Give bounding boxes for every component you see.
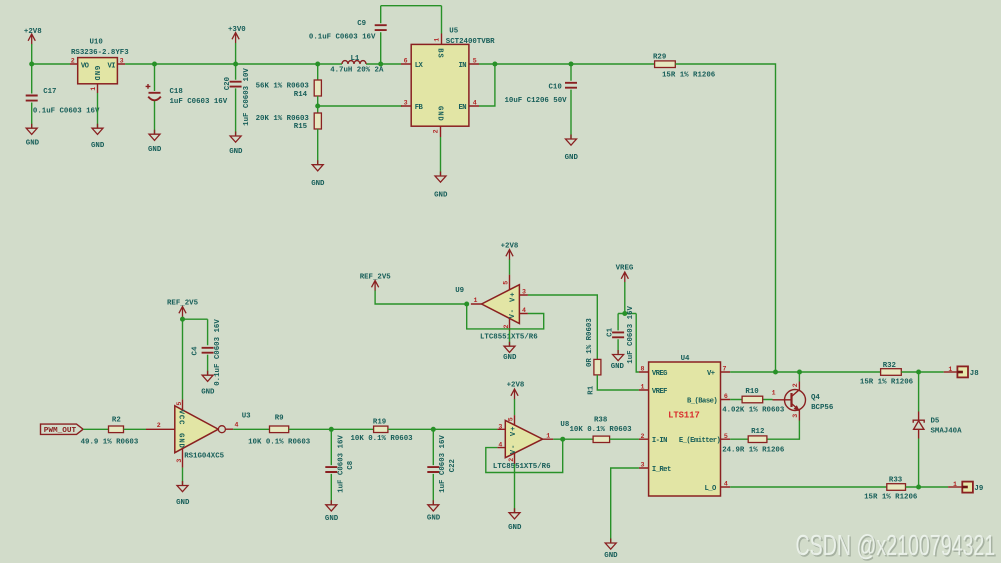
resistor R33 <box>864 477 918 502</box>
svg-text:EN: EN <box>459 104 467 112</box>
wire <box>906 486 949 488</box>
op-amp U8 <box>493 415 570 471</box>
wire <box>509 260 511 275</box>
junction <box>233 62 238 67</box>
svg-text:R19: R19 <box>373 419 386 427</box>
wire <box>618 282 639 372</box>
label REF_2V5 U3 <box>167 299 199 317</box>
wire <box>125 63 401 65</box>
wire <box>901 371 943 373</box>
resistor R2 <box>81 416 139 446</box>
svg-text:C8: C8 <box>347 460 355 469</box>
wire <box>388 428 497 430</box>
svg-text:GND: GND <box>611 363 625 371</box>
svg-text:D5: D5 <box>931 418 940 426</box>
svg-text:R14: R14 <box>294 91 308 99</box>
wire <box>730 438 748 440</box>
wire <box>97 93 99 128</box>
svg-text:56K 1% R0603: 56K 1% R0603 <box>256 83 310 91</box>
svg-text:6: 6 <box>404 58 408 65</box>
svg-text:U5: U5 <box>449 28 458 36</box>
svg-text:R12: R12 <box>751 428 764 436</box>
svg-text:7: 7 <box>723 366 727 373</box>
svg-text:1: 1 <box>90 87 97 91</box>
ground <box>434 172 448 200</box>
svg-text:3: 3 <box>498 423 502 430</box>
svg-text:3: 3 <box>641 462 645 469</box>
svg-text:REF_2V5: REF_2V5 <box>167 299 199 307</box>
svg-text:3: 3 <box>522 289 526 296</box>
svg-text:BCP56: BCP56 <box>811 404 834 412</box>
svg-text:V-: V- <box>509 308 517 318</box>
svg-text:V+: V+ <box>707 370 715 378</box>
svg-text:SCT2400TVBR: SCT2400TVBR <box>446 38 495 46</box>
svg-text:+2V8: +2V8 <box>501 242 519 250</box>
ground <box>427 500 441 522</box>
svg-text:10K 0.1% R0603: 10K 0.1% R0603 <box>570 426 633 434</box>
svg-text:0.1uF C0603 16V: 0.1uF C0603 16V <box>33 108 100 116</box>
wire <box>317 129 319 164</box>
svg-text:+3V0: +3V0 <box>228 26 246 34</box>
svg-text:1uF C0603 16V: 1uF C0603 16V <box>170 98 228 106</box>
svg-text:4: 4 <box>522 307 526 314</box>
wire base <box>730 399 772 401</box>
wire <box>124 428 147 430</box>
wire collector <box>798 372 800 382</box>
resistor R19 <box>351 419 414 444</box>
svg-text:SMAJ40A: SMAJ40A <box>931 428 963 436</box>
svg-text:1: 1 <box>948 366 952 373</box>
wire <box>440 137 442 175</box>
svg-text:C4: C4 <box>191 346 199 355</box>
junction <box>492 62 497 67</box>
svg-text:10K 0.1% R0603: 10K 0.1% R0603 <box>351 435 414 443</box>
resistor R9 <box>248 415 311 447</box>
svg-text:GND: GND <box>565 154 579 162</box>
wire V+ rail <box>730 371 880 373</box>
svg-text:+2V8: +2V8 <box>507 382 525 390</box>
svg-text:U9: U9 <box>455 287 464 295</box>
IC U5 <box>401 28 495 137</box>
svg-text:GND: GND <box>177 433 185 449</box>
ground <box>201 371 215 397</box>
junction <box>29 62 34 67</box>
svg-text:0R 1% R0603: 0R 1% R0603 <box>586 318 594 367</box>
regulator U10 <box>70 38 129 93</box>
svg-text:5: 5 <box>508 417 515 421</box>
op-amp U9 <box>455 275 538 342</box>
svg-text:4: 4 <box>724 481 728 488</box>
svg-text:GND: GND <box>436 106 444 122</box>
power +2V8 <box>501 242 519 260</box>
svg-text:4: 4 <box>498 442 502 449</box>
svg-text:20K 1% R0603: 20K 1% R0603 <box>256 115 310 123</box>
svg-text:GND: GND <box>176 499 190 507</box>
wire <box>610 438 639 440</box>
svg-text:GND: GND <box>427 514 441 522</box>
capacitor C4 <box>191 319 221 386</box>
ground <box>91 124 105 150</box>
svg-text:RS3236-2.8YF3: RS3236-2.8YF3 <box>71 49 129 57</box>
svg-text:2: 2 <box>157 422 161 429</box>
svg-text:2: 2 <box>792 383 799 387</box>
svg-text:C10: C10 <box>549 83 563 91</box>
svg-text:Q4: Q4 <box>811 394 820 402</box>
resistor R38 <box>570 417 633 443</box>
junction <box>152 62 157 67</box>
wire <box>233 428 269 430</box>
connector J9 <box>948 481 983 493</box>
capacitor C20 <box>224 64 251 135</box>
svg-text:1: 1 <box>433 38 440 42</box>
svg-text:C17: C17 <box>43 88 56 96</box>
ground <box>229 132 243 156</box>
ground <box>311 160 325 188</box>
svg-text:V-: V- <box>510 444 518 454</box>
svg-text:J9: J9 <box>974 485 983 493</box>
resistor R14 <box>256 64 322 99</box>
svg-text:5: 5 <box>473 58 477 65</box>
wire U9 out <box>528 295 597 359</box>
svg-text:CSDN @x2100794321: CSDN @x2100794321 <box>796 530 996 562</box>
svg-text:1uF C0603 16V: 1uF C0603 16V <box>627 306 635 364</box>
wire <box>509 331 511 346</box>
svg-text:LX: LX <box>415 62 424 70</box>
junction <box>797 370 802 375</box>
inductor L1 <box>330 55 384 74</box>
svg-text:GND: GND <box>148 146 162 154</box>
svg-text:L1: L1 <box>351 55 360 63</box>
wire I_Ret <box>611 468 639 542</box>
wire <box>375 291 467 305</box>
wire IN rail <box>479 63 655 65</box>
svg-text:GND: GND <box>503 354 517 362</box>
label REF_2V5 <box>360 274 392 291</box>
junction <box>916 485 921 490</box>
connector J8 <box>944 366 980 378</box>
svg-text:B_(Base): B_(Base) <box>687 397 717 405</box>
svg-text:2: 2 <box>71 58 75 65</box>
svg-text:GND: GND <box>325 515 339 523</box>
capacitor C10 <box>505 64 578 138</box>
svg-text:1: 1 <box>474 297 478 304</box>
power +2V8 U8 <box>507 382 525 400</box>
svg-text:15R 1% R1206: 15R 1% R1206 <box>860 379 914 387</box>
svg-text:5: 5 <box>176 402 183 406</box>
svg-text:GND: GND <box>92 66 100 82</box>
svg-text:GND: GND <box>201 389 215 397</box>
wire <box>32 44 70 64</box>
svg-text:1: 1 <box>546 433 550 440</box>
svg-text:8: 8 <box>641 366 645 373</box>
wire <box>289 428 374 430</box>
wire <box>553 438 593 440</box>
wire <box>182 468 184 485</box>
wire <box>83 428 108 430</box>
svg-text:24.9R 1% R1206: 24.9R 1% R1206 <box>722 447 785 455</box>
diode D5 <box>913 372 962 487</box>
svg-text:RS1G04XC5: RS1G04XC5 <box>184 453 224 461</box>
svg-text:GND: GND <box>434 191 448 199</box>
svg-text:C9: C9 <box>357 20 366 28</box>
svg-text:1uF C0603 16V: 1uF C0603 16V <box>439 435 447 493</box>
svg-text:3: 3 <box>792 414 799 418</box>
capacitor C1 <box>606 306 634 364</box>
wire <box>183 317 208 400</box>
svg-text:2: 2 <box>432 129 439 133</box>
transistor Q4 <box>772 382 834 421</box>
svg-text:V+: V+ <box>510 426 518 436</box>
junction <box>916 370 921 375</box>
svg-text:1: 1 <box>953 481 957 488</box>
junction <box>329 427 334 432</box>
hierarchical label PWM_OUT <box>41 424 84 435</box>
wire feedback U8 <box>486 439 563 472</box>
ground <box>325 500 339 523</box>
wire <box>675 64 775 372</box>
svg-text:PWM_OUT: PWM_OUT <box>44 427 77 435</box>
wire EN <box>479 64 495 106</box>
svg-text:VREG: VREG <box>616 265 634 273</box>
svg-text:3: 3 <box>120 58 124 65</box>
svg-text:3: 3 <box>404 100 408 107</box>
svg-text:VO: VO <box>81 62 90 70</box>
svg-text:I-IN: I-IN <box>652 437 667 445</box>
wire emitter <box>767 421 800 440</box>
svg-text:5: 5 <box>724 433 728 440</box>
svg-text:0.1uF C0603 16V: 0.1uF C0603 16V <box>214 319 222 386</box>
capacitor C18 polarized <box>146 64 228 134</box>
svg-text:VREF: VREF <box>652 388 667 396</box>
ground <box>508 508 522 532</box>
svg-text:R32: R32 <box>883 362 896 370</box>
power +2V8 <box>24 28 42 45</box>
svg-text:I_Ret: I_Ret <box>652 466 671 474</box>
svg-text:R1: R1 <box>588 385 596 394</box>
svg-text:C18: C18 <box>170 88 184 96</box>
svg-text:C22: C22 <box>449 459 457 472</box>
wire L_O rail <box>730 486 887 488</box>
svg-text:GND: GND <box>26 140 40 148</box>
svg-text:2: 2 <box>641 433 645 440</box>
inverter U3 <box>146 399 251 467</box>
svg-text:10K 0.1% R0603: 10K 0.1% R0603 <box>248 438 311 446</box>
capacitor C17 <box>26 64 100 128</box>
svg-text:4: 4 <box>235 422 239 429</box>
svg-text:VREG: VREG <box>652 370 667 378</box>
junction <box>560 437 565 442</box>
svg-text:1: 1 <box>772 389 776 396</box>
resistor R15 <box>256 113 322 131</box>
wire <box>514 399 516 415</box>
ground <box>148 130 162 154</box>
svg-text:GND: GND <box>508 524 522 532</box>
svg-text:VI: VI <box>108 62 116 70</box>
svg-text:15R 1% R1206: 15R 1% R1206 <box>864 494 918 502</box>
junction <box>464 302 469 307</box>
svg-text:U3: U3 <box>242 412 251 420</box>
junction <box>315 62 320 67</box>
svg-text:REF_2V5: REF_2V5 <box>360 274 392 282</box>
svg-text:LTC8551XT5/R6: LTC8551XT5/R6 <box>493 463 551 471</box>
svg-text:R33: R33 <box>889 477 903 485</box>
capacitor C22 <box>427 429 457 504</box>
svg-text:R10: R10 <box>745 388 759 396</box>
svg-text:1uF C0603 10V: 1uF C0603 10V <box>243 68 251 126</box>
junction <box>315 104 320 109</box>
resistor R10 <box>722 388 785 414</box>
ground <box>565 135 579 163</box>
svg-text:R15: R15 <box>294 123 308 131</box>
capacitor C9 <box>309 6 442 64</box>
svg-text:R29: R29 <box>653 54 666 62</box>
svg-text:+2V8: +2V8 <box>24 28 42 36</box>
ground <box>503 342 517 363</box>
watermark <box>796 530 997 563</box>
ground <box>604 539 618 560</box>
power VREG <box>616 265 634 283</box>
svg-text:GND: GND <box>91 142 105 150</box>
svg-text:U8: U8 <box>560 421 569 429</box>
svg-text:U10: U10 <box>90 38 104 46</box>
wire feedback U9 <box>467 304 544 329</box>
svg-text:10uF C1206 50V: 10uF C1206 50V <box>505 97 568 105</box>
junction <box>180 317 185 322</box>
svg-text:49.9 1% R0603: 49.9 1% R0603 <box>81 438 139 446</box>
svg-text:IN: IN <box>459 62 467 70</box>
IC U4 <box>639 355 730 496</box>
svg-text:6: 6 <box>724 393 728 400</box>
ground <box>26 124 40 148</box>
svg-text:4.02K 1% R0603: 4.02K 1% R0603 <box>722 407 785 415</box>
svg-text:R2: R2 <box>112 416 121 424</box>
junction <box>431 427 436 432</box>
svg-text:U4: U4 <box>681 355 690 363</box>
resistor R1 <box>586 318 601 395</box>
svg-text:0.1uF C0603 16V: 0.1uF C0603 16V <box>309 33 376 41</box>
svg-text:R38: R38 <box>594 417 608 425</box>
svg-text:C20: C20 <box>224 76 232 90</box>
wire <box>597 375 639 390</box>
svg-text:V+: V+ <box>509 292 517 302</box>
svg-text:4.7uH 20% 2A: 4.7uH 20% 2A <box>330 67 384 75</box>
svg-text:E_(Emitter): E_(Emitter) <box>679 437 721 445</box>
svg-text:3: 3 <box>176 459 183 463</box>
svg-text:C1: C1 <box>606 327 614 336</box>
junction <box>773 370 778 375</box>
svg-text:1: 1 <box>641 384 645 391</box>
junction <box>622 311 627 316</box>
junction <box>378 62 383 67</box>
capacitor C8 <box>325 429 355 504</box>
svg-text:1uF C0603 16V: 1uF C0603 16V <box>337 435 345 493</box>
svg-text:2: 2 <box>508 458 515 462</box>
power +3V0 <box>228 26 246 64</box>
svg-text:BS: BS <box>436 48 444 58</box>
svg-text:GND: GND <box>311 180 325 188</box>
svg-text:LTS117: LTS117 <box>668 411 700 421</box>
svg-text:5: 5 <box>503 281 510 285</box>
junction <box>569 62 574 67</box>
svg-text:VCC: VCC <box>177 410 185 426</box>
svg-text:4: 4 <box>473 100 477 107</box>
resistor R29 <box>653 54 716 80</box>
ground <box>611 350 625 371</box>
svg-text:R9: R9 <box>275 415 284 423</box>
ground <box>176 481 190 507</box>
resistor R32 <box>860 362 914 387</box>
svg-text:FB: FB <box>415 104 424 112</box>
svg-text:15R 1% R1206: 15R 1% R1206 <box>662 72 716 80</box>
svg-text:L_O: L_O <box>705 485 718 493</box>
svg-text:J8: J8 <box>970 370 979 378</box>
svg-text:GND: GND <box>604 552 618 560</box>
wire <box>318 96 402 113</box>
wire <box>514 464 516 512</box>
resistor R12 <box>722 428 785 455</box>
svg-text:GND: GND <box>229 148 243 156</box>
svg-text:2: 2 <box>503 325 510 329</box>
